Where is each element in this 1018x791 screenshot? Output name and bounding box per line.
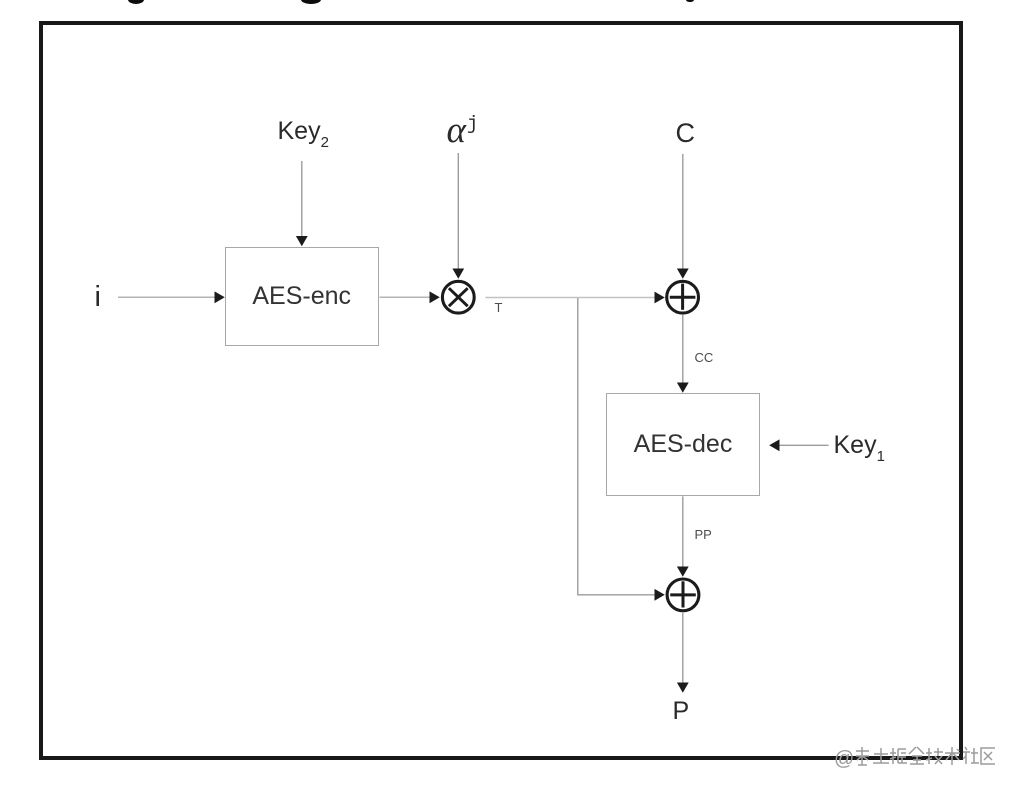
wire Key2 to AES-enc: [296, 161, 308, 246]
svg-text:@: @: [834, 748, 854, 770]
label Key1: [834, 431, 885, 465]
title fragment p descender 3: [686, 0, 694, 2]
char ji (skill): [926, 748, 943, 764]
wire branch from T down to xor2: [578, 298, 665, 601]
xor1 node (circle-plus): [667, 281, 699, 313]
label Key2: [278, 117, 329, 151]
title fragment g descender 1: [128, 0, 144, 4]
multiplier node (circle-X): [442, 281, 474, 313]
wire Key1 to AES-dec: [769, 439, 828, 451]
label C: [676, 118, 696, 149]
label T: [495, 300, 503, 315]
char jue (dig): [890, 748, 907, 764]
wire AES-enc to multiplier: [380, 291, 440, 303]
wire C to xor1: [677, 154, 689, 279]
wire multiplier to xor1 node T: [486, 292, 665, 304]
block AES-enc: [225, 247, 379, 347]
char shu (art): [945, 747, 960, 765]
char xi (rare): [856, 747, 869, 765]
xor2 node (circle-plus): [667, 579, 699, 611]
wire xor2 to P: [677, 613, 689, 693]
label PP: [695, 527, 712, 542]
wire alpha to multiplier: [452, 153, 464, 279]
wire AES-dec to xor2 node PP: [677, 496, 689, 577]
label i: [95, 281, 101, 314]
char tu (earth): [873, 748, 889, 763]
label CC: [695, 350, 714, 365]
title fragment g descender 2: [301, 0, 321, 4]
wire xor1 to AES-dec node CC: [677, 315, 689, 393]
char she (society): [963, 747, 979, 764]
watermark @juejin community: [834, 747, 995, 770]
char jin (gold): [909, 747, 924, 764]
label P: [673, 697, 690, 726]
label alpha^j: [447, 109, 479, 152]
block AES-dec: [606, 393, 760, 496]
char qu (district): [981, 748, 995, 764]
wire i to AES-enc: [118, 291, 225, 303]
